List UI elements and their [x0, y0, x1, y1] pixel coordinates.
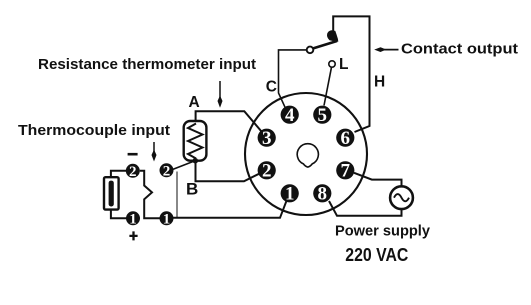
svg-text:8: 8: [318, 184, 328, 205]
svg-text:B: B: [186, 180, 198, 199]
socket pin 2: [258, 161, 276, 179]
svg-text:1: 1: [285, 184, 295, 205]
plus sign: [129, 231, 137, 240]
wire: thin vertical terminal-2 corner to bottom wire: [176, 172, 178, 218]
svg-text:A: A: [189, 94, 200, 111]
wire: thermocouple sensor to terminal 1: [111, 210, 127, 218]
relay pivot contact circle: [307, 47, 314, 54]
RTD bottom junction dot: [193, 158, 199, 164]
socket outline (8-pin octal socket): [245, 93, 367, 215]
break line between thermocouple and controller terminals: [140, 171, 160, 218]
socket pin 7: [336, 161, 354, 179]
svg-text:Resistance thermometer input: Resistance thermometer input: [38, 56, 256, 73]
svg-text:5: 5: [318, 105, 328, 126]
L contact circle: [329, 61, 335, 67]
wire: RTD top (A) to socket pin 3: [196, 111, 262, 131]
wire: bottom run terminal 1 to socket pin 1: [173, 201, 287, 218]
svg-text:Thermocouple input: Thermocouple input: [18, 122, 170, 139]
svg-text:2: 2: [129, 164, 137, 180]
svg-text:1: 1: [129, 211, 137, 227]
svg-text:7: 7: [341, 161, 351, 182]
svg-text:Power supply: Power supply: [335, 223, 431, 240]
terminal 1 (thermocouple plus): [126, 211, 140, 225]
wire: terminal 2 to RTD junction: [173, 161, 196, 170]
svg-text:2: 2: [163, 163, 171, 179]
AC power source: [390, 186, 413, 209]
RTD body (resistance thermometer): [184, 121, 207, 161]
socket pin 5: [313, 106, 331, 124]
relay arm tip blob: [327, 30, 338, 42]
svg-text:3: 3: [262, 128, 272, 149]
terminal 2 (controller side): [160, 163, 174, 177]
terminal 2 (thermocouple minus): [126, 164, 140, 178]
svg-text:C: C: [266, 79, 277, 96]
svg-text:2: 2: [262, 161, 272, 182]
socket pin 3: [258, 129, 276, 147]
arrow: thermocouple input pointer: [153, 142, 155, 155]
terminal 1 (controller side): [160, 211, 174, 225]
minus sign: [128, 153, 138, 156]
socket pin 4: [281, 106, 299, 124]
wire: pin 7 to AC source top: [354, 173, 402, 187]
socket pin 1: [281, 184, 299, 202]
thermocouple sensor body: [104, 177, 119, 209]
arrow: contact output pointer: [380, 49, 399, 51]
wire: RTD bottom (B) to socket pin 2: [196, 161, 261, 182]
socket pin 8: [313, 184, 331, 202]
svg-text:Contact output: Contact output: [401, 41, 518, 58]
wire: pin 4 up to relay common pivot: [279, 50, 307, 107]
svg-text:H: H: [374, 73, 385, 90]
wire: thermocouple sensor to terminal 2: [111, 171, 126, 177]
wire: L contact down to pin 5: [324, 67, 332, 105]
arrow: resistance thermometer input pointer: [219, 81, 221, 101]
svg-text:1: 1: [163, 211, 171, 227]
relay moving arm: [313, 41, 337, 48]
RTD zigzag element: [188, 124, 203, 159]
wire: relay arm up and over to H line: [333, 16, 369, 132]
keyway: [297, 144, 318, 167]
AC sine symbol: [394, 194, 409, 201]
svg-text:L: L: [339, 56, 348, 73]
svg-text:4: 4: [285, 105, 295, 126]
svg-text:6: 6: [341, 128, 351, 149]
socket pin 6: [336, 129, 354, 147]
svg-text:220 VAC: 220 VAC: [345, 244, 408, 265]
wire: AC source bottom to pin 8: [329, 201, 402, 216]
